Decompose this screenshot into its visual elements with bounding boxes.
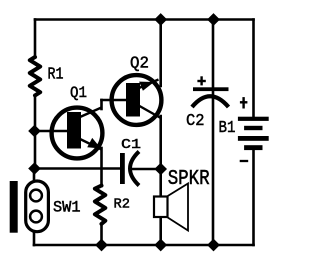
wire bottom rail: [34, 244, 254, 247]
capacitor C2: [186, 76, 229, 131]
junction dots (diamonds): [28, 13, 220, 251]
node rail speaker: [154, 239, 167, 252]
wire Q1 base: [35, 130, 68, 133]
wire SW1 bottom lead: [33, 232, 36, 246]
svg-text:C2: C2: [186, 112, 205, 131]
wire R2 bottom to rail: [100, 224, 103, 245]
svg-text:Q2: Q2: [130, 54, 149, 73]
wire C1 right to speaker node: [132, 168, 161, 171]
wire SW1 top lead: [33, 169, 36, 182]
node C1/SW1 junction: [28, 162, 41, 175]
svg-text:Q1: Q1: [70, 84, 87, 102]
switch SW1: [10, 181, 81, 233]
capacitor C1: [120, 137, 141, 186]
svg-text:R2: R2: [114, 196, 131, 212]
wire battery bottom lead: [252, 150, 255, 245]
node top rail speaker line: [154, 13, 167, 26]
wire left vertical top (rail to R1): [34, 20, 37, 58]
wire Q1 emitter to R2: [100, 148, 103, 186]
wire Q2 base: [102, 99, 127, 102]
transistor Q2: [112, 54, 162, 125]
svg-text:SW1: SW1: [53, 199, 81, 217]
wire C1 left (base node to C1): [35, 167, 121, 170]
svg-text:SPKR: SPKR: [168, 168, 210, 191]
wire R1 bottom to base junction: [34, 95, 37, 169]
node top rail C2: [207, 13, 220, 26]
svg-text:B1: B1: [219, 118, 236, 137]
battery B1: [219, 97, 269, 161]
transistor Q1: [52, 84, 103, 158]
resistor R2: [95, 186, 105, 224]
wire C2 vertical: [212, 20, 215, 246]
svg-text:C1: C1: [121, 137, 141, 153]
wire battery top lead: [252, 20, 255, 118]
node rail C2: [207, 239, 220, 252]
node rail R2: [95, 239, 108, 252]
resistor R1: [30, 57, 40, 95]
node speaker/C1: [154, 163, 167, 176]
wire Q1 collector riser: [100, 100, 103, 109]
wire Q2 emitter to top rail: [159, 20, 162, 87]
svg-text:R1: R1: [48, 66, 64, 85]
wire top rail: [35, 18, 254, 21]
speaker SPKR: [154, 168, 210, 231]
node base junction: [28, 125, 41, 138]
wire Q2 collector down to speaker node: [159, 116, 162, 197]
wire speaker bottom to rail: [159, 217, 162, 245]
